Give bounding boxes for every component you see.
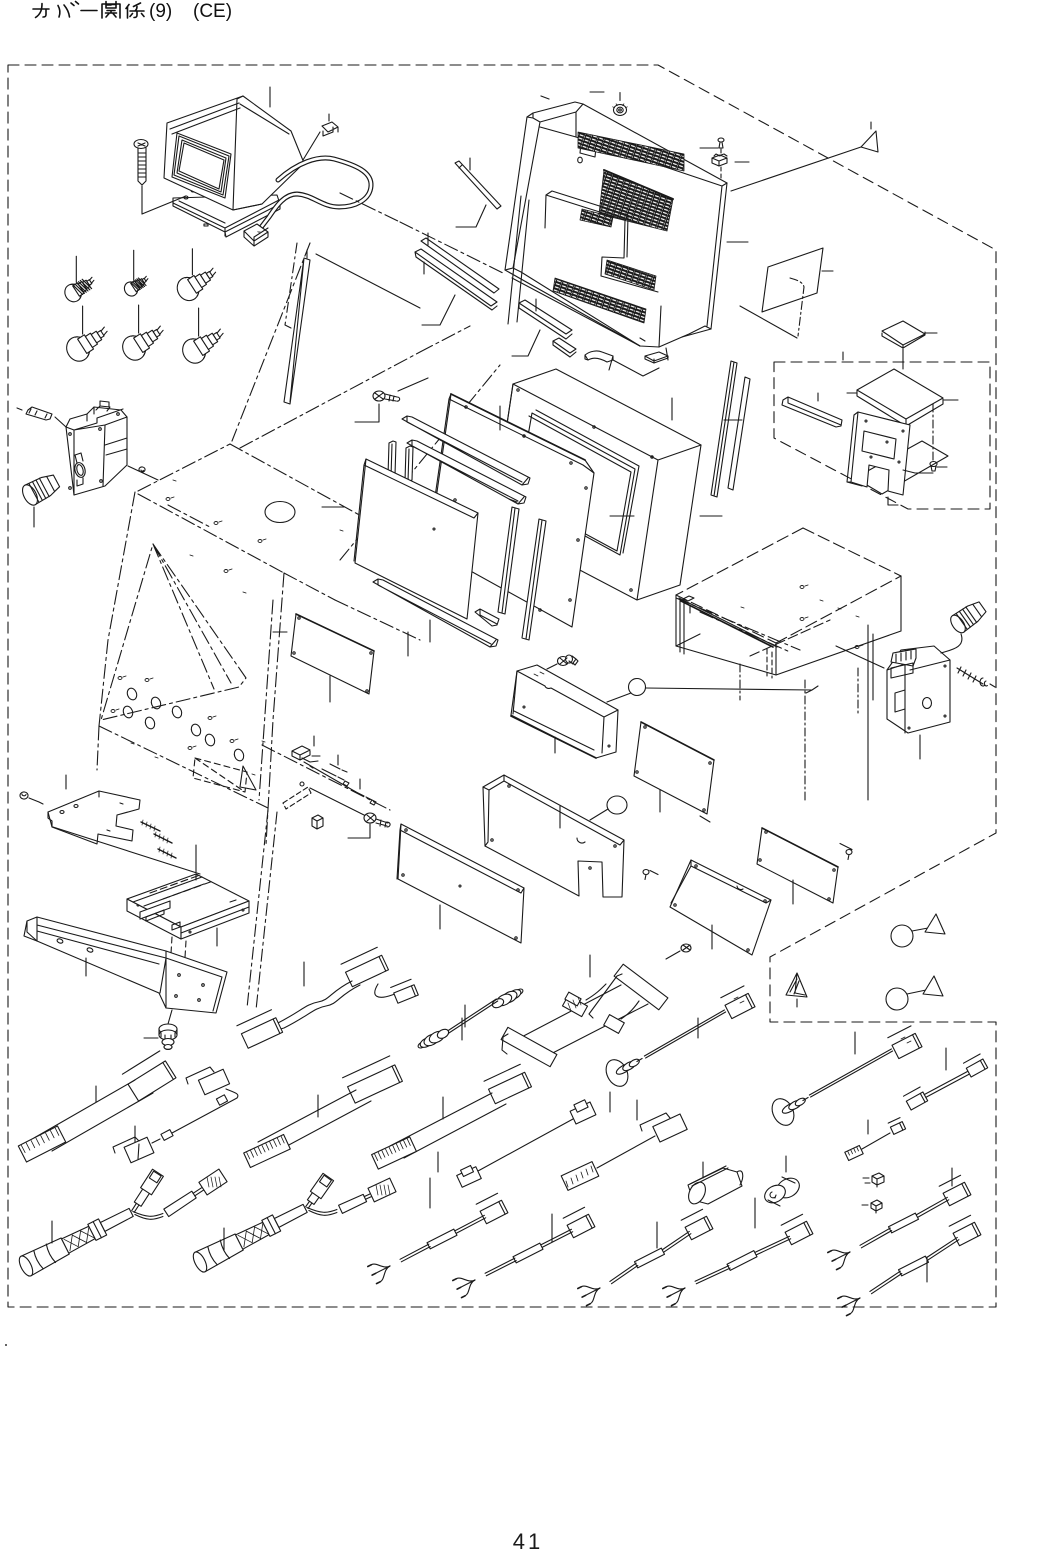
balloon flag 2 bbox=[886, 976, 943, 1010]
screen bbox=[172, 133, 231, 198]
knob 2 bbox=[122, 280, 140, 299]
base plate bbox=[173, 195, 280, 232]
thumbscrew near open box bbox=[547, 655, 578, 669]
tall thin strip left bbox=[273, 243, 420, 632]
fork harness 3 bbox=[685, 1216, 713, 1239]
cabinet bottom edge bbox=[97, 726, 268, 808]
strip C bbox=[519, 300, 572, 339]
leader bracket to floppy bbox=[53, 827, 200, 874]
wedge piece bbox=[475, 609, 499, 626]
small panel right of cover bbox=[740, 248, 833, 338]
knob 5 bbox=[118, 332, 149, 364]
small nut bbox=[128, 466, 158, 480]
knob 6 bbox=[178, 335, 209, 367]
panel D5 bbox=[757, 828, 852, 904]
harness vertical link bbox=[570, 1102, 596, 1124]
border main dashed bbox=[8, 65, 996, 1307]
small parts row lower-left bbox=[283, 736, 390, 838]
mini link right bbox=[845, 1146, 863, 1161]
tiny clamp B bbox=[871, 1200, 882, 1213]
small hole bbox=[578, 157, 583, 163]
floppy drive bbox=[127, 874, 249, 927]
explosion axes bbox=[168, 193, 800, 810]
tiny clamp A bbox=[872, 1173, 884, 1187]
cabinet top edges bbox=[138, 444, 374, 600]
knob 1 bbox=[62, 281, 84, 304]
knob 4 bbox=[62, 333, 93, 365]
pcb panel bbox=[397, 824, 524, 943]
trim bar T2 bbox=[407, 440, 526, 504]
cable connector bbox=[244, 224, 268, 246]
harness main power bbox=[128, 1061, 176, 1101]
harness ribbon A bbox=[348, 1065, 403, 1103]
ribbed nut bbox=[613, 93, 628, 116]
svg-text:(CE): (CE) bbox=[193, 1, 232, 22]
bottom small bracket 1 bbox=[585, 351, 613, 362]
thick harness 2 bbox=[195, 1234, 243, 1272]
top L-bracket bbox=[48, 791, 140, 844]
bracket bbox=[851, 412, 910, 495]
open box center-right bbox=[511, 665, 618, 758]
thin mounting strips left of cover bbox=[415, 158, 576, 357]
rear cover assembly (top center) bbox=[505, 92, 749, 376]
threaded pins bbox=[141, 822, 176, 858]
six control knobs bbox=[62, 249, 223, 367]
grille bottom band bbox=[553, 278, 646, 323]
leader lines bbox=[142, 87, 270, 214]
grille small mid bbox=[580, 209, 613, 227]
long rail bracket bbox=[24, 917, 227, 1013]
monitor body bbox=[164, 96, 304, 210]
capacitor tube bbox=[688, 1168, 742, 1204]
fuse bbox=[26, 407, 52, 420]
harness keylock 1 bbox=[602, 1056, 632, 1090]
dashed trapezoid on panel bbox=[193, 758, 247, 792]
balloon flag 1 bbox=[891, 914, 945, 947]
cable gland right bbox=[941, 602, 986, 653]
phantom cabinet outline bbox=[97, 193, 800, 845]
fork harness 4 bbox=[785, 1221, 813, 1244]
stray mark bbox=[5, 1344, 7, 1346]
control panel holes bbox=[111, 676, 265, 775]
cabinet right front edge bbox=[259, 573, 284, 845]
trim bar T1 bbox=[402, 416, 530, 485]
balloon bbox=[629, 679, 646, 696]
harness diag link bbox=[653, 1114, 687, 1142]
strip A bbox=[455, 161, 501, 209]
grommet bbox=[773, 1174, 803, 1202]
clamp bbox=[712, 154, 727, 166]
knob 3 bbox=[173, 274, 203, 305]
mask panel bbox=[428, 394, 634, 627]
fork harness 5 bbox=[943, 1182, 971, 1205]
grille right patch bbox=[599, 170, 673, 231]
strip D small bbox=[553, 338, 576, 357]
video cable bbox=[259, 158, 371, 230]
glass sheet bbox=[322, 459, 478, 656]
bracket kit in dashed box bbox=[782, 321, 958, 505]
svg-text:41: 41 bbox=[513, 1529, 543, 1554]
thumbscrew center-left bbox=[355, 378, 428, 422]
base plate bbox=[855, 441, 948, 494]
grille band top bbox=[578, 132, 684, 171]
dashed sub-box top right bbox=[774, 362, 990, 509]
harness ribbon B bbox=[489, 1072, 532, 1103]
right electronics box phantom bbox=[676, 528, 901, 800]
leader marks bbox=[541, 92, 749, 242]
CRT monitor assembly bbox=[134, 87, 371, 246]
thick harness 1 bbox=[21, 1238, 69, 1276]
transformer unit right bbox=[887, 646, 950, 759]
fork harness 6 bbox=[953, 1222, 981, 1245]
triangle flag top right bbox=[731, 122, 878, 191]
mid-left panel with screws bbox=[291, 614, 374, 702]
bezel frame 3d bbox=[492, 369, 722, 600]
harness rca pair bbox=[514, 988, 523, 996]
bent cover D2 bbox=[643, 860, 771, 959]
posts bbox=[388, 441, 413, 482]
right tall strip pair bbox=[711, 361, 750, 497]
harness keylock 2 bbox=[768, 1095, 798, 1129]
bottom trim bar T3 bbox=[373, 579, 498, 647]
cable gland bbox=[19, 475, 59, 527]
inner step box bbox=[545, 191, 658, 292]
left bracket and floppy group bbox=[20, 775, 277, 1050]
harness link small A bbox=[198, 1069, 229, 1095]
warning triangle small bbox=[786, 973, 807, 1007]
small screw top right bbox=[718, 138, 724, 153]
small lid plate above bbox=[882, 321, 925, 348]
cabinet top oval hole bbox=[265, 502, 295, 523]
rear cover outline bbox=[505, 102, 727, 347]
cable plug small bbox=[322, 114, 338, 136]
harness flat ribbon right bbox=[906, 1092, 927, 1110]
cabinet left edge bbox=[99, 492, 135, 726]
side window bbox=[101, 544, 246, 720]
title text カバー関係（9）(CE) bbox=[33, 4, 49, 18]
vertical strip V1 bbox=[498, 499, 519, 614]
stepped cover bbox=[483, 775, 627, 897]
thin bar bbox=[782, 397, 842, 427]
dashed drop lines bbox=[168, 937, 186, 1007]
grille mid-low band bbox=[605, 260, 656, 290]
phantom axis pair from cabinet bbox=[247, 810, 277, 1010]
small top plate bbox=[580, 140, 597, 157]
stud screw right bbox=[957, 667, 995, 687]
harness plate connector bbox=[614, 964, 668, 1010]
cabinet top screw marks bbox=[166, 480, 343, 593]
small bolt left bbox=[20, 792, 28, 799]
fork harness 2 bbox=[567, 1214, 595, 1237]
fork harness 1 bbox=[480, 1200, 508, 1223]
flat lid bbox=[857, 369, 943, 419]
bottom small bracket 2 bbox=[645, 352, 668, 363]
left breaker box assembly bbox=[17, 401, 158, 527]
mount screw bbox=[134, 140, 148, 149]
harness ribbon w/ branch bbox=[346, 955, 389, 986]
title bbox=[33, 2, 144, 19]
panel D4 bbox=[634, 722, 714, 822]
small triangle mark bbox=[240, 766, 256, 790]
thumbscrew big bbox=[144, 1024, 177, 1050]
vertical strip V2 bbox=[522, 519, 546, 640]
svg-text:(9): (9) bbox=[149, 1, 172, 22]
screw with phantom line bbox=[932, 404, 934, 462]
strip B pair bbox=[421, 238, 499, 293]
